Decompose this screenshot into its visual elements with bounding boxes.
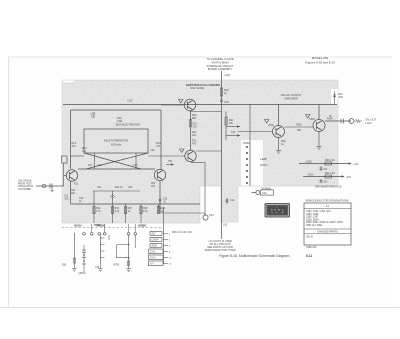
svg-text:SW30: SW30 [243, 142, 250, 145]
svg-text:.001: .001 [323, 182, 328, 184]
svg-text:X-Y: X-Y [150, 263, 154, 266]
svg-text:C36: C36 [95, 267, 100, 269]
svg-text:(R75): (R75) [113, 265, 119, 267]
wire: Q4 emitter to vertical [189, 110, 191, 113]
wire: bottom rail between transistors [78, 168, 155, 170]
-12V triangle left of Q4 [179, 100, 184, 103]
multivibrator inner box [84, 129, 148, 153]
output ticks [354, 119, 362, 123]
svg-text:C15: C15 [97, 164, 102, 167]
wire: Q3 base line right segment [148, 155, 185, 157]
switch wire C short [108, 235, 110, 240]
svg-text:Figures 8-18 and 8-19: Figures 8-18 and 8-19 [305, 61, 335, 65]
svg-text:C22: C22 [128, 186, 133, 189]
wire: Q6 base [285, 126, 314, 128]
label cluster below Q2 [151, 183, 168, 204]
svg-text:C19: C19 [231, 131, 236, 134]
capacitor C30 in notch [333, 92, 343, 102]
wire A ground [72, 264, 77, 271]
svg-text:+12V: +12V [224, 73, 230, 77]
wire: vertical x112.5 y191-204 [112, 191, 114, 204]
diamond junction symbol [111, 195, 115, 199]
wire: y213 horizontal [160, 212, 205, 214]
label cluster below Q1 [64, 184, 84, 204]
svg-text:SW30A: SW30A [74, 225, 82, 228]
wire: Q3 base line left segment [71, 155, 85, 157]
svg-text:CHASSIS PARTS: CHASSIS PARTS [317, 230, 338, 234]
dropper resistor labels [96, 207, 166, 213]
-12V triangle above Q3 [180, 149, 185, 152]
svg-text:VIA P/O MAIN: VIA P/O MAIN [211, 60, 228, 64]
wire: Q5 base line [238, 131, 272, 133]
resistor R18 on long vertical [220, 88, 229, 96]
switch stack vertical line [163, 207, 165, 264]
svg-text:C385, C387: C385, C387 [306, 217, 319, 219]
svg-text:SEMICONDUCTOR DESIGNATIONS: SEMICONDUCTOR DESIGNATIONS [305, 199, 349, 203]
svg-text:R17: R17 [88, 164, 93, 167]
ground below Q5 [276, 151, 281, 154]
svg-text:SEMICONDUCTOR TYPES: SEMICONDUCTOR TYPES [204, 249, 235, 252]
wire: Q4 base from left [161, 104, 184, 106]
wire D dots [128, 244, 130, 259]
dashed switch rotation line [62, 227, 163, 229]
svg-text:100: 100 [223, 224, 228, 227]
arrowhead +12V row [349, 162, 352, 164]
wire: emitter horizontal to long vertical [190, 111, 222, 113]
svg-text:Q380, Q384: Q380, Q384 [306, 219, 319, 221]
ruler column dots [83, 254, 85, 262]
svg-text:CHOP: CHOP [152, 239, 159, 242]
svg-text:VIA PROBE: VIA PROBE [18, 188, 31, 191]
svg-text:+12V: +12V [127, 100, 133, 103]
svg-text:R31 1.8k: R31 1.8k [325, 172, 335, 175]
svg-text:R391 thru R394: R391 thru R394 [306, 224, 323, 227]
svg-text:R36: R36 [62, 265, 67, 267]
svg-text:100 kHz OUTPUT: 100 kHz OUTPUT [281, 93, 302, 97]
capacitor C24 in gray column [226, 198, 236, 204]
parts table outer box [304, 203, 351, 245]
svg-text:4.7k: 4.7k [96, 210, 101, 213]
resistor R31 [325, 175, 332, 178]
wire: Q6 emitter down [318, 132, 320, 147]
svg-text:390: 390 [297, 129, 302, 132]
transistor Q6 [313, 120, 325, 132]
svg-text:TO CHANNEL 2 GATE: TO CHANNEL 2 GATE [206, 57, 233, 61]
left edge label R22 [71, 189, 76, 195]
capacitor C14 [90, 112, 95, 119]
output coupling capacitor bars [341, 119, 344, 124]
top note text block [206, 57, 233, 71]
wire: +12V feed row [299, 163, 351, 165]
wire: cross coupling X right-to-left [86, 153, 148, 169]
switch stack tick labels [169, 234, 172, 266]
svg-text:C21: C21 [97, 186, 102, 189]
capacitor C11 box on left edge [62, 156, 68, 163]
svg-text:470: 470 [192, 143, 197, 146]
resistor R16 label [117, 117, 123, 123]
svg-text:CH 2: CH 2 [150, 257, 156, 260]
resistor network right of Q4 [225, 112, 240, 141]
svg-text:BISTABLE TRIGGER: BISTABLE TRIGGER [116, 124, 140, 127]
svg-text:R10: R10 [79, 198, 84, 200]
svg-text:AMPLIFIER: AMPLIFIER [284, 96, 298, 100]
resistor R12 labels on left edge [72, 142, 88, 153]
svg-text:C380 300: C380 300 [306, 246, 317, 249]
wire: Q2 emitter down [159, 181, 161, 213]
capacitor C23 marks [159, 197, 162, 203]
svg-text:SW30C: SW30C [138, 226, 146, 228]
wire E vertical [134, 235, 136, 248]
input connector circle [42, 184, 46, 188]
svg-text:+12V: +12V [260, 157, 267, 161]
label MULTIVIBRATOR [104, 139, 129, 147]
wire: mid horizontal y191 [93, 190, 140, 192]
wire B stubs [100, 238, 104, 258]
wire: Q6 collector up to rail [318, 105, 320, 120]
contact stubs above circles [92, 224, 136, 232]
resistor dropper group [93, 204, 160, 223]
svg-text:680: 680 [192, 117, 197, 120]
wire: Q3 emitter run [191, 162, 205, 164]
wire: Q5 emitter down [278, 138, 280, 151]
wire from C30 down to rail [334, 101, 336, 105]
tab mark at gray top-left [63, 82, 75, 84]
-12V triangle above Q6 [306, 115, 311, 118]
wire: Q1 base stub [64, 175, 67, 177]
svg-text:.001: .001 [192, 126, 197, 129]
resistor R394 label [327, 115, 333, 121]
resistor R30 [325, 162, 332, 165]
switch box labels [150, 233, 159, 266]
page sheet area [8, 57, 392, 307]
dash to -12V circle [252, 192, 256, 194]
svg-text:Q34: Q34 [209, 214, 214, 217]
svg-text:C12: C12 [64, 196, 69, 198]
labels by connector pins [229, 119, 236, 134]
page left edge [8, 57, 10, 307]
wire: vertical to Q7 [204, 163, 206, 216]
resistor R26 label [281, 140, 286, 146]
svg-text:750: 750 [168, 160, 173, 163]
input ground [51, 189, 54, 192]
transistor Q2 [154, 169, 165, 180]
svg-text:(2R30): (2R30) [79, 273, 86, 275]
labels on y191 wire [97, 186, 133, 189]
wire: long horizontal y204 [71, 203, 201, 205]
svg-text:R33 4.7k C26 .001: R33 4.7k C26 .001 [172, 231, 193, 234]
wire: Q5 collector up to rail [278, 105, 280, 126]
parts table divider [304, 228, 351, 230]
wire: Q1 emitter down [70, 181, 72, 204]
wire: outer box left vertical [70, 110, 72, 169]
wire: cross coupling X left-to-right [84, 153, 141, 169]
note text block bottom middle [204, 240, 235, 252]
transistor Q5 [273, 126, 285, 138]
wire: vertical x94 y191-204 [93, 191, 95, 204]
svg-text:-12V: -12V [346, 176, 351, 179]
resistor box on Q3 collector line [189, 120, 191, 127]
svg-text:.001: .001 [323, 169, 328, 171]
svg-text:R392: R392 [296, 124, 302, 127]
svg-text:ALT: ALT [152, 233, 157, 236]
switch wire D vertical [128, 235, 130, 265]
switch wire B vertical [99, 235, 101, 266]
svg-text:C23: C23 [163, 199, 168, 201]
IC photo dark box [265, 203, 291, 218]
wire: Q3 collector up [190, 111, 192, 150]
title EMITTER FOLLOWERS [186, 83, 220, 90]
svg-text:100 kHz: 100 kHz [110, 143, 122, 147]
wire: output line [325, 120, 351, 122]
small transistor Q7 [203, 215, 208, 220]
svg-text:C383, C384: C383, C384 [306, 214, 319, 216]
transistor Q1 [66, 170, 77, 181]
label pulse out [365, 118, 377, 125]
switch wire A vertical [73, 233, 75, 264]
svg-text:Q384: Q384 [309, 118, 316, 121]
connector arrow pin lower [237, 134, 240, 137]
svg-text:C17: C17 [133, 164, 138, 167]
resistor R20 label [192, 114, 197, 146]
stack of switch position boxes [149, 232, 164, 266]
output connector circle [349, 119, 354, 124]
wire: x205 vertical [204, 213, 206, 216]
svg-text:Figure 8-18. Multivibrator Sc: Figure 8-18. Multivibrator Schematic Dia… [219, 254, 290, 258]
resistor R17 label [88, 164, 102, 167]
page top edge [8, 56, 392, 58]
input label text [18, 180, 33, 191]
switch section labels above dashed line [74, 225, 146, 228]
svg-text:AND GATES: AND GATES [190, 87, 205, 90]
svg-text:.001: .001 [64, 199, 69, 201]
shaded circuit-board region [62, 80, 338, 223]
R30 labels [305, 159, 359, 166]
wire B ground [98, 266, 103, 271]
svg-text:SW30B: SW30B [97, 226, 105, 228]
svg-text:SW 30: SW 30 [306, 237, 314, 239]
svg-text:A1: A1 [326, 204, 330, 208]
svg-text:R23 1k: R23 1k [115, 186, 123, 189]
wire: feed to switch channel from rail [249, 105, 251, 143]
parts table body text [306, 211, 343, 227]
transistor Q4 [184, 99, 195, 110]
svg-text:2.2k: 2.2k [143, 210, 148, 213]
resistor R19 labels on right edge [150, 142, 161, 152]
-12V triangle above Q5 [265, 120, 270, 123]
wire: long vertical from top note [221, 71, 223, 239]
svg-text:+12V: +12V [353, 163, 359, 166]
wire D bracket [117, 245, 129, 258]
wire: Q3 side link to long vertical [196, 150, 222, 152]
R31 labels [307, 172, 351, 179]
svg-text:CAL: CAL [262, 191, 268, 195]
svg-text:(DCPL): (DCPL) [260, 165, 268, 167]
boxed label next to circle [261, 190, 274, 195]
svg-text:C24: C24 [230, 199, 235, 202]
arrowhead -12V row [342, 175, 345, 177]
capacitor C18 [220, 100, 223, 102]
capacitor below R30 [320, 166, 329, 171]
svg-text:1 kHz: 1 kHz [365, 121, 372, 125]
amplifier title text [281, 93, 302, 100]
svg-text:Q380: Q380 [268, 124, 275, 127]
svg-text:BOARD ASSEMBLY: BOARD ASSEMBLY [208, 67, 233, 71]
top right figure reference text [305, 56, 335, 65]
switch contact dots [246, 146, 248, 184]
switch stack tick marks [164, 234, 169, 264]
wire D resistor [128, 261, 130, 266]
svg-text:8-11: 8-11 [306, 254, 312, 258]
page bottom edge [0, 307, 400, 309]
wire: from C11 down to input line [63, 163, 65, 186]
wire: vertical below inner box right [135, 153, 137, 169]
svg-text:MODEL 453: MODEL 453 [312, 56, 329, 60]
wire: -12V feed row [303, 176, 344, 178]
svg-text:.005: .005 [338, 96, 343, 99]
test point arrow right of bottom rail [166, 163, 174, 165]
wire: outer box top [71, 109, 162, 111]
ruler column ticks [82, 245, 86, 272]
wire: input lead [36, 185, 64, 187]
wire: vertical below inner box left [94, 153, 96, 169]
svg-text:C18: C18 [224, 101, 229, 104]
svg-text:R380, R381, R383 thru R387, R3: R380, R381, R383 thru R387, R390 [306, 221, 343, 224]
svg-text:C16: C16 [150, 149, 155, 152]
svg-text:4.7k: 4.7k [115, 210, 120, 213]
capacitor below R31 [320, 179, 329, 184]
resistor R392 label [296, 124, 302, 133]
svg-text:ADD: ADD [152, 245, 157, 248]
svg-text:R30 2.2k: R30 2.2k [325, 159, 335, 162]
svg-text:R23: R23 [151, 183, 156, 185]
switch wafer channel vertical [249, 142, 251, 186]
transistor Q3 [185, 150, 196, 161]
svg-text:C380, C381, C382, Q13: C380, C381, C382, Q13 [306, 211, 331, 213]
wire: top rail [63, 104, 337, 106]
switch contact circles row [83, 233, 137, 236]
wire D ground [126, 266, 131, 272]
parts table A1 header row [304, 208, 351, 210]
ground below Q6 [317, 147, 322, 150]
svg-text:INTERFACE CIRCUIT: INTERFACE CIRCUIT [207, 64, 234, 68]
input coupling capacitor [50, 184, 52, 189]
svg-text:CH 1: CH 1 [150, 251, 156, 254]
wire: outer box right vertical [160, 110, 162, 169]
wire A bottom resistor [73, 258, 75, 263]
svg-text:SEE WAVEFORMS 8-18: SEE WAVEFORMS 8-18 [315, 186, 342, 189]
connector arrow pin upper [237, 125, 240, 128]
shaded region faint outline [62, 80, 338, 223]
-12V circle symbol [256, 191, 260, 195]
svg-text:+225V: +225V [305, 161, 312, 164]
svg-text:-150V: -150V [307, 174, 314, 177]
